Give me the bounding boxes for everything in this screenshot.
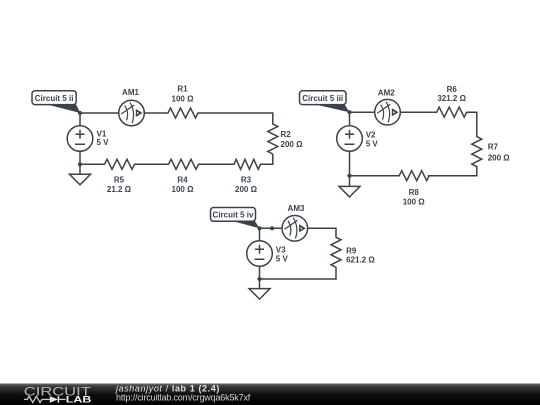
voltage source V3 (5 V) — [247, 241, 289, 267]
annotation callout "Circuit 5 iii" — [300, 91, 350, 112]
node F (junction on top wire) — [270, 226, 274, 230]
wire: R5 to node B — [80, 163, 105, 165]
ammeter AM1 — [119, 88, 145, 126]
resistor R9 (621.2 Ω, vertical) — [331, 237, 375, 267]
svg-text:Circuit 5 iv: Circuit 5 iv — [213, 211, 254, 220]
resistor R2 (200 Ω, vertical) — [268, 124, 303, 154]
svg-text:V3: V3 — [276, 245, 286, 254]
svg-text:AM1: AM1 — [122, 88, 139, 97]
svg-text:R6: R6 — [447, 85, 458, 94]
svg-text:321.2 Ω: 321.2 Ω — [437, 94, 466, 103]
ground (circuit 2) — [339, 186, 360, 197]
wire: R4 to R5 — [135, 163, 169, 165]
wire: R2 bottom to corner and left to R3 — [261, 155, 273, 165]
wire: AM2 right terminal to R6 — [400, 111, 436, 113]
wire: node B to ground stub — [79, 164, 81, 174]
wire: R9 bottom to corner and left to node G — [260, 267, 337, 279]
wire: node A to AM1 left terminal — [80, 112, 119, 114]
wire: node A down to V1 plus terminal — [79, 113, 81, 126]
svg-text:LAB: LAB — [66, 394, 92, 404]
annotation callout "Circuit 5 iv" — [211, 208, 260, 229]
svg-text:5 V: 5 V — [276, 255, 289, 264]
svg-text:AM3: AM3 — [288, 204, 305, 213]
svg-text:621.2 Ω: 621.2 Ω — [346, 256, 375, 265]
wire: AM1 right terminal to R1 — [144, 112, 168, 114]
CircuitLab logo wordmark — [24, 384, 92, 404]
wire: V1 minus terminal to node B — [79, 151, 81, 164]
wire: V3 minus terminal to node G — [259, 266, 261, 279]
voltage source V2 (5 V) — [337, 126, 379, 152]
resistor R1 (100 Ω) — [168, 85, 198, 118]
svg-text:5 V: 5 V — [366, 140, 379, 149]
wire: V2 minus terminal to node D — [349, 151, 351, 175]
voltage source V1 (5 V) — [67, 126, 109, 152]
wire: node C down to V2 plus terminal — [349, 112, 351, 126]
resistor R7 (200 Ω, vertical) — [472, 137, 510, 167]
wire: AM3 right terminal to corner and down to R9 — [308, 228, 336, 237]
wire: node E down to V3 plus terminal — [259, 228, 261, 241]
wire: node D to ground stub — [349, 176, 351, 187]
annotation callout "Circuit 5 ii" — [32, 91, 80, 113]
ammeter AM3 — [282, 204, 308, 241]
svg-text:AM2: AM2 — [378, 89, 395, 98]
wire: R1 to top-right corner and down to R2 — [198, 113, 273, 124]
svg-text:R8: R8 — [409, 188, 420, 197]
wire: node E through node F to AM3 left terminal — [260, 227, 283, 229]
svg-text:R1: R1 — [177, 85, 188, 94]
node E (junction at top of V3) — [257, 226, 261, 230]
svg-text:R3: R3 — [241, 175, 252, 184]
svg-text:21.2 Ω: 21.2 Ω — [107, 185, 132, 194]
svg-text:5 V: 5 V — [97, 138, 110, 147]
wire: R6 to corner and down to R7 — [467, 112, 477, 136]
resistor R5 (21.2 Ω) — [105, 159, 135, 194]
resistor R6 (321.2 Ω) — [437, 85, 467, 117]
svg-text:R5: R5 — [114, 175, 125, 184]
svg-text:100 Ω: 100 Ω — [403, 198, 426, 207]
ground (circuit 1) — [70, 174, 91, 185]
resistor R3 (200 Ω) — [234, 159, 260, 194]
wire: R3 to R4 — [199, 163, 235, 165]
wire: node G to ground stub — [259, 279, 261, 289]
svg-text:R9: R9 — [346, 246, 357, 255]
resistor R4 (100 Ω) — [169, 159, 199, 194]
resistor R8 (100 Ω) — [399, 171, 429, 207]
svg-text:Circuit 5 iii: Circuit 5 iii — [302, 94, 343, 103]
wire: node C to AM2 left terminal — [350, 111, 375, 113]
svg-text:R7: R7 — [488, 142, 499, 151]
svg-text:100 Ω: 100 Ω — [172, 185, 195, 194]
svg-text:200 Ω: 200 Ω — [235, 185, 258, 194]
node C (junction at top of V2) — [347, 110, 351, 114]
svg-text:http://circuitlab.com/crgwqa6k: http://circuitlab.com/crgwqa6k5k7xf — [116, 393, 251, 403]
wire: R7 bottom to corner and left to R8 — [428, 166, 477, 175]
ground (circuit 3) — [249, 289, 270, 300]
svg-text:100 Ω: 100 Ω — [172, 95, 195, 104]
footer title line — [115, 383, 251, 402]
svg-text:200 Ω: 200 Ω — [488, 153, 511, 162]
svg-text:R4: R4 — [177, 175, 188, 184]
svg-text:V2: V2 — [366, 130, 376, 139]
svg-text:Circuit 5 ii: Circuit 5 ii — [35, 94, 74, 103]
node A (junction at top of V1) — [78, 111, 82, 115]
svg-text:200 Ω: 200 Ω — [281, 140, 304, 149]
node D (junction at bottom of V2) — [347, 174, 351, 178]
node G (junction at bottom of V3) — [257, 277, 261, 281]
ammeter AM2 — [375, 89, 401, 125]
node B (junction at bottom of V1) — [78, 162, 82, 166]
svg-text:R2: R2 — [281, 130, 292, 139]
wire: R8 to node D — [350, 175, 400, 177]
